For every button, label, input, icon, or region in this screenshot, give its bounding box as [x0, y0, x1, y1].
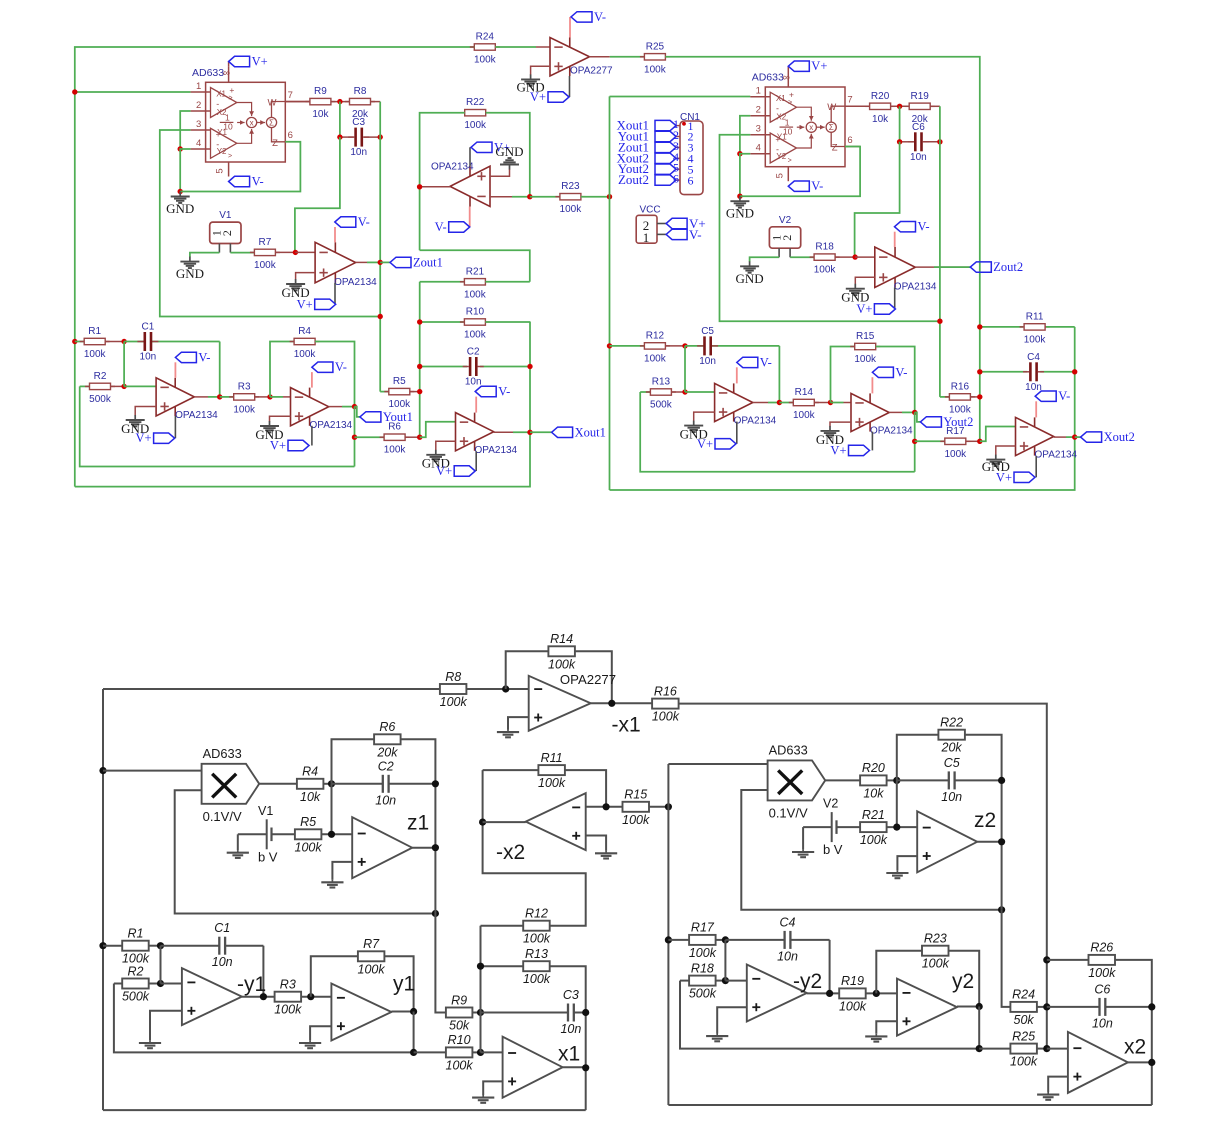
wire circuit1 bottom wire: [103, 1109, 586, 1111]
wire -x2 output loop to R21: [420, 250, 530, 281]
svg-text:10n: 10n: [777, 949, 798, 963]
svg-text:V+: V+: [697, 437, 713, 451]
svg-text:GND: GND: [176, 266, 204, 281]
resistor R13 500k: [640, 391, 650, 393]
svg-text:x: x: [809, 123, 813, 132]
svg-text:500k: 500k: [650, 400, 673, 411]
node x1 output: [527, 430, 532, 435]
wire gnd rail to pin6: [180, 142, 300, 192]
node R13 left: [477, 963, 484, 970]
multiplier AD633 bottom-left: [202, 746, 260, 824]
net flag Yout2: [915, 412, 921, 422]
wire z1 output to Zout1 flag: [380, 261, 390, 263]
node -x2 output: [417, 184, 422, 189]
resistor R16 100k: [652, 684, 680, 723]
node R18 right: [722, 977, 729, 984]
wire C4 feedback to -y2 output: [829, 940, 831, 994]
svg-text:V-: V-: [252, 175, 264, 189]
capacitor C1 10n: [161, 945, 219, 947]
svg-text:50k: 50k: [449, 1019, 470, 1033]
svg-text:R25: R25: [646, 41, 665, 52]
node y1 output: [410, 1008, 417, 1015]
svg-text:100k: 100k: [254, 260, 277, 271]
svg-text:0.1V/V: 0.1V/V: [203, 809, 242, 824]
wire y1 output: [391, 1011, 413, 1013]
node C6 right on z2 rail: [937, 139, 942, 144]
resistor R17 100k: [668, 939, 689, 941]
node R12/C5 junction: [682, 343, 687, 348]
wire AD633 U3 pin4 to gnd: [740, 154, 750, 197]
svg-text:R6: R6: [379, 720, 395, 734]
svg-text:0.1V/V: 0.1V/V: [769, 805, 808, 820]
node pin3 wire on z2 rail: [937, 319, 942, 324]
op-amp x2 integrator: [1068, 1032, 1128, 1093]
node R11 left: [977, 324, 982, 329]
svg-text:R5: R5: [300, 815, 316, 829]
resistor R4 100k: [290, 326, 320, 360]
svg-text:3: 3: [756, 124, 761, 135]
svg-text:6: 6: [847, 135, 852, 146]
pin CN1-6 flag Zout2: [676, 179, 680, 181]
node z1 output: [432, 844, 439, 851]
wire C5 feedback to -y2 output: [778, 346, 780, 402]
wire circuit1 bottom: [75, 322, 530, 487]
wire z2 input node up to R22: [897, 735, 938, 781]
node x1 output: [582, 1064, 589, 1071]
wire R4 right to y1 output rail: [315, 342, 354, 407]
svg-text:OPA2134: OPA2134: [734, 416, 777, 427]
wire x2 output: [1054, 436, 1066, 438]
resistor R23 100k: [922, 932, 950, 971]
wire -y1 minus input: [161, 983, 182, 985]
svg-text:10k: 10k: [300, 790, 321, 804]
wire -y2 minus input: [725, 980, 746, 982]
svg-text:100k: 100k: [295, 840, 323, 854]
power flag V+ x1 opamp: [475, 451, 477, 471]
svg-text:20k: 20k: [941, 741, 963, 755]
svg-text:100k: 100k: [548, 657, 576, 671]
ground z2 plus input: [897, 856, 917, 870]
power flag V+ -x2 opamp: [469, 147, 471, 166]
wire z1 output: [412, 847, 435, 849]
ground x2 plus input: [1048, 1077, 1068, 1092]
svg-text:10n: 10n: [1092, 1016, 1113, 1030]
ground V1: [237, 834, 239, 850]
pin CN1-2 flag Yout1: [676, 136, 680, 138]
node R26 left on x2 input rail: [1043, 956, 1050, 963]
wire -x2 output rail: [482, 770, 484, 822]
svg-text:-y2: -y2: [793, 970, 822, 993]
wire R22 left to -x2 output rail: [420, 113, 465, 251]
svg-text:100k: 100k: [440, 695, 468, 709]
wire z2 rail R19 to R16: [939, 106, 941, 397]
resistor R7 100k: [358, 937, 386, 976]
resistor R8 20k: [345, 86, 375, 120]
svg-text:AD633: AD633: [752, 72, 784, 84]
svg-text:V-: V-: [895, 365, 907, 379]
svg-text:3: 3: [196, 119, 201, 130]
wire y1 output: [329, 406, 342, 408]
svg-text:C3: C3: [563, 988, 579, 1002]
wire z1 input node up to R6: [332, 739, 374, 784]
resistor R1 100k: [75, 341, 84, 343]
node R21 right / z2 minus: [893, 824, 900, 831]
svg-text:V+: V+: [270, 439, 286, 453]
resistor R5 100k: [380, 391, 388, 393]
svg-text:R15: R15: [624, 788, 647, 802]
svg-text:b V: b V: [823, 842, 843, 857]
ground -y1 plus input: [150, 1011, 182, 1041]
wire z2 rail down to R24: [1002, 910, 1011, 1007]
node y2 output: [912, 410, 917, 415]
ground V1: [176, 257, 204, 282]
svg-text:z1: z1: [407, 812, 429, 835]
resistor R22 20k: [938, 716, 965, 755]
wire y1 minus input: [270, 396, 283, 398]
wire x2 rail top to AD633 U3 pin1: [610, 96, 751, 98]
svg-text:b V: b V: [258, 849, 278, 864]
svg-text:V-: V-: [358, 215, 370, 229]
pin VCC-2 flag V+: [657, 223, 666, 225]
power flag V+ y1 opamp: [311, 426, 313, 446]
power flag V- -x2 opamp: [469, 207, 471, 228]
svg-text:V+: V+: [530, 90, 546, 104]
wire z rail R8 to R5: [379, 102, 381, 392]
wire x1 output: [494, 431, 513, 433]
wire R15 loop: [831, 347, 855, 403]
resistor R4 10k: [297, 765, 324, 804]
svg-text:100k: 100k: [523, 972, 551, 986]
wire gnd rail to pin6 circuit2: [740, 147, 860, 197]
svg-text:100k: 100k: [1010, 1055, 1038, 1069]
net flag Yout1: [355, 407, 360, 417]
resistor R18 100k: [810, 242, 840, 276]
svg-text:V+: V+: [856, 302, 872, 316]
op-amp y2: [897, 979, 957, 1036]
svg-text:10n: 10n: [910, 152, 927, 163]
node y2 output: [976, 1003, 983, 1010]
wire V2 minus to gnd: [778, 248, 780, 257]
wire multiplier2 output to R20: [825, 779, 860, 781]
wire x1 output: [563, 1066, 586, 1068]
wire R2 left to feedback rail: [114, 984, 414, 1053]
resistor R11 100k: [980, 326, 1023, 328]
svg-text:100k: 100k: [523, 932, 551, 946]
svg-text:Zout2: Zout2: [618, 172, 649, 187]
svg-text:>: >: [228, 95, 232, 102]
wire -y2 output: [753, 402, 768, 404]
wire y1 feedback to R10: [414, 1051, 446, 1053]
node C6 left: [897, 139, 902, 144]
svg-text:R19: R19: [911, 91, 930, 102]
svg-text:R1: R1: [88, 326, 101, 337]
power flag V+ OPA2277: [569, 76, 571, 97]
svg-text:OPA2134: OPA2134: [334, 277, 377, 288]
node R4 right / z1 input: [328, 780, 335, 787]
op-amp U8 OPA2134 y1: [291, 388, 353, 431]
svg-text:R5: R5: [393, 376, 406, 387]
capacitor C3 10n: [340, 136, 354, 138]
op-amp OPA2277 -x1 inverter: [529, 676, 591, 731]
svg-text:C4: C4: [1027, 352, 1040, 363]
capacitor C2 10n: [420, 366, 467, 368]
wire pin1 to left rail: [75, 91, 191, 93]
wire R18 left to feedback rail: [680, 981, 979, 1049]
svg-text:10n: 10n: [560, 1022, 581, 1036]
svg-text:100k: 100k: [644, 64, 667, 75]
node z1 opamp input: [293, 250, 298, 255]
node R3/R4 junction: [267, 394, 272, 399]
wire -y1 output: [194, 396, 208, 398]
ground x2 plus input: [996, 446, 1016, 455]
svg-text:4: 4: [756, 143, 761, 154]
svg-text:V-: V-: [1058, 389, 1070, 403]
svg-text:100k: 100k: [464, 289, 487, 300]
svg-text:R16: R16: [654, 684, 677, 698]
svg-text:R7: R7: [259, 237, 272, 248]
svg-text:R16: R16: [951, 381, 970, 392]
svg-text:R13: R13: [525, 947, 548, 961]
wire circuit2 bottom wire: [668, 1104, 1151, 1106]
wire x1 rail to multiplier X input: [103, 770, 202, 772]
svg-text:R14: R14: [795, 387, 814, 398]
power flag V- z2 opamp: [894, 232, 896, 247]
ground OPA2277 plus input: [531, 66, 550, 75]
svg-text:100k: 100k: [839, 999, 867, 1013]
resistor R10 100k: [446, 1033, 474, 1072]
wire OPA2277 output: [591, 702, 652, 704]
svg-text:6: 6: [288, 130, 293, 141]
svg-text:R1: R1: [128, 927, 144, 941]
node R2/C1 vertical junction: [121, 384, 126, 389]
ground y1 plus input: [310, 1026, 331, 1040]
node C3 right on x1 output rail: [582, 1009, 589, 1016]
wire -x2 minus input: [586, 806, 624, 808]
node x2 output: [1148, 1059, 1155, 1066]
svg-text:y2: y2: [952, 970, 974, 993]
wire R8 input row: [103, 688, 440, 690]
svg-text:100k: 100k: [922, 957, 950, 971]
svg-text:10n: 10n: [1025, 382, 1042, 393]
power flag V+ x2 opamp: [1035, 456, 1037, 477]
node -x2 minus node: [603, 803, 610, 810]
svg-text:100k: 100k: [384, 445, 407, 456]
node pin4 gnd junction: [178, 146, 183, 151]
svg-text:-x2: -x2: [496, 841, 525, 864]
resistor R6 20k: [374, 720, 401, 759]
svg-text:V1: V1: [219, 210, 232, 221]
wire R9/R8 node down to C3: [339, 102, 341, 138]
node x1 rail / R1 junction: [72, 339, 77, 344]
svg-text:Zout1: Zout1: [413, 255, 443, 269]
power flag V- AD633 U3: [788, 179, 823, 193]
svg-text:100k: 100k: [388, 399, 411, 410]
resistor R12 100k: [610, 345, 645, 347]
svg-text:R3: R3: [280, 978, 296, 992]
svg-text:100k: 100k: [949, 404, 972, 415]
power flag V- x1 opamp: [475, 397, 477, 413]
svg-text:1: 1: [756, 86, 761, 97]
node R6 right: [417, 435, 422, 440]
power flag V- x2 opamp: [1035, 401, 1037, 417]
svg-text:V-: V-: [335, 360, 347, 374]
svg-text:100k: 100k: [294, 349, 317, 360]
svg-text:OPA2134: OPA2134: [310, 420, 353, 431]
svg-text:500k: 500k: [89, 394, 112, 405]
node R13/C5 vertical junction: [682, 389, 687, 394]
node -x2 minus node: [527, 194, 532, 199]
svg-text:100k: 100k: [233, 404, 256, 415]
resistor R5 100k: [295, 815, 323, 854]
node z2 output: [998, 838, 1005, 845]
svg-text:5: 5: [774, 173, 785, 178]
wire z1 input node down to R5 node: [331, 784, 333, 835]
ground z1 opamp plus input: [296, 273, 316, 280]
svg-text:Σ: Σ: [829, 123, 834, 132]
wire x2 rail R12 junction: [607, 343, 612, 348]
resistor R15 100k: [622, 788, 650, 827]
capacitor C5 10n: [685, 345, 704, 347]
wire circuit2 bottom: [610, 437, 1075, 490]
net flag Zout1: [390, 255, 443, 269]
op-amp U11 OPA2134 y2: [851, 393, 913, 436]
node multiplier2 feedback on z2 rail: [998, 906, 1005, 913]
node R24 right on x2 input rail: [1043, 1003, 1050, 1010]
svg-text:100k: 100k: [538, 776, 566, 790]
svg-text:x1: x1: [558, 1043, 580, 1066]
svg-text:+: +: [229, 85, 234, 95]
svg-text:Xout2: Xout2: [1104, 430, 1135, 444]
wire z1 rail down to R9: [435, 914, 445, 1013]
wire C1 node down to R2 node: [160, 946, 162, 984]
svg-text:R8: R8: [445, 670, 461, 684]
svg-text:R25: R25: [1012, 1029, 1035, 1043]
node R5 right: [417, 389, 422, 394]
svg-text:C6: C6: [1094, 982, 1110, 996]
ground -y1 plus input: [135, 407, 156, 416]
resistor R22 100k: [460, 97, 490, 131]
node pin4 gnd junction circuit2: [737, 151, 742, 156]
wire z2 output: [977, 841, 1001, 843]
svg-text:7: 7: [288, 90, 293, 101]
node C3 right on z rail: [378, 134, 383, 139]
svg-text:V+: V+: [136, 431, 152, 445]
ground OPA2277 plus input: [508, 717, 529, 729]
svg-text:100k: 100k: [860, 833, 888, 847]
capacitor C3 10n: [481, 1012, 568, 1014]
power flag V- -y1 opamp: [174, 362, 176, 378]
svg-text:2: 2: [780, 235, 794, 241]
wire V1 minus to gnd: [218, 244, 220, 253]
svg-text:GND: GND: [495, 144, 523, 159]
svg-text:100k: 100k: [689, 946, 717, 960]
svg-text:R12: R12: [646, 330, 665, 341]
wire -y2 output: [807, 992, 839, 994]
node R10 right on x1 input rail: [477, 1049, 484, 1056]
svg-text:100k: 100k: [622, 813, 650, 827]
voltage source V2: [769, 215, 800, 248]
svg-text:V2: V2: [779, 215, 792, 226]
wire multiplier2 Y input from z2 rail: [741, 790, 1001, 910]
wire AD633 U3 pin3 from z2 rail: [720, 135, 940, 322]
svg-text:C1: C1: [142, 322, 155, 333]
svg-text:x2: x2: [1124, 1036, 1146, 1059]
svg-text:Z: Z: [272, 138, 278, 149]
wire R23 loop: [876, 951, 922, 994]
node y1 output: [352, 404, 357, 409]
ground x1 plus input: [483, 1081, 502, 1095]
svg-text:R4: R4: [298, 326, 311, 337]
op-amp U6 OPA2134 -x2 inverter: [450, 166, 490, 206]
svg-text:100k: 100k: [1088, 966, 1116, 980]
ground y2 plus input: [876, 1021, 897, 1034]
wire -x2 minus input: [490, 196, 512, 198]
node y1 feedback junction: [410, 1049, 417, 1056]
resistor R24 50k: [1010, 988, 1037, 1027]
node R5 right / z1 minus: [328, 831, 335, 838]
svg-text:6: 6: [673, 172, 679, 186]
resistor R1 100k: [103, 945, 122, 947]
ground x1 plus input: [436, 441, 456, 450]
pin CN1-5 flag Yout2: [676, 168, 680, 170]
node gnd junction circuit2: [737, 194, 742, 199]
wire x1 left rail bottom schematic: [102, 689, 104, 1110]
resistor R18 500k: [680, 980, 689, 982]
power flag V- z1 opamp: [334, 227, 336, 242]
svg-text:2: 2: [756, 105, 761, 116]
wire y2 minus input: [831, 402, 844, 404]
ground -x2 plus input: [586, 836, 606, 851]
node R6 left on y1 rail: [352, 435, 357, 440]
node C4 left: [977, 369, 982, 374]
node R1/C1 junction: [121, 339, 126, 344]
svg-text:R26: R26: [1090, 941, 1113, 955]
svg-text:AD633: AD633: [192, 67, 224, 79]
wire x1 minus tap: [420, 422, 456, 438]
svg-text:1: 1: [643, 230, 650, 245]
svg-text:>: >: [788, 100, 792, 107]
node R25 right on x2 input rail: [1043, 1045, 1050, 1052]
resistor R2 500k: [114, 983, 122, 985]
wire R13 right to x1 output rail: [550, 966, 586, 1110]
wire multiplier2 X input from x2 rail: [668, 763, 767, 765]
svg-text:2: 2: [196, 100, 201, 111]
wire R18 node to z2 opamp minus: [855, 256, 875, 258]
wire AD633 U1 pin4 to gnd: [180, 149, 190, 192]
svg-text:Xout1: Xout1: [575, 425, 606, 439]
svg-text:500k: 500k: [122, 990, 150, 1004]
wire x2 output: [1128, 1061, 1152, 1063]
node C2 right: [527, 364, 532, 369]
svg-text:OPA2134: OPA2134: [1035, 450, 1078, 461]
resistor R9 10k: [305, 86, 335, 120]
svg-text:R24: R24: [476, 32, 495, 43]
svg-text:X1: X1: [216, 89, 226, 98]
svg-text:7: 7: [847, 95, 852, 106]
resistor R13 100k: [481, 965, 524, 967]
svg-text:C1: C1: [214, 921, 230, 935]
svg-text:100k: 100k: [274, 1003, 302, 1017]
capacitor C1 10n: [124, 341, 145, 343]
net flag Xout1: [530, 431, 552, 433]
svg-text:V+: V+: [252, 55, 268, 69]
power flag V+ z1 opamp: [334, 283, 336, 305]
svg-text:R11: R11: [1026, 311, 1044, 322]
svg-text:R8: R8: [354, 86, 367, 97]
svg-text:Y2: Y2: [776, 152, 786, 161]
wire OPA2277 output to R25: [589, 56, 610, 58]
wire R14 feedback loop: [506, 651, 549, 689]
